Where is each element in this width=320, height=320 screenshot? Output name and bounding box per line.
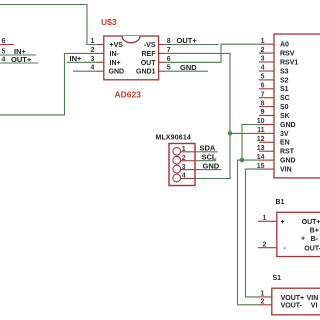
- svg-text:4: 4: [261, 65, 265, 72]
- svg-text:1: 1: [261, 38, 265, 45]
- MLX90614 pin 4: [173, 173, 195, 182]
- svg-text:SCL: SCL: [202, 153, 217, 162]
- svg-text:GND: GND: [109, 69, 125, 76]
- svg-text:B-: B-: [311, 236, 319, 243]
- S1 pin 1: [259, 290, 272, 297]
- svg-text:IN+: IN+: [70, 54, 83, 63]
- IC1 pin 2 RSV: [259, 47, 295, 58]
- svg-text:12: 12: [257, 136, 265, 143]
- svg-text:VIN: VIN: [280, 167, 292, 174]
- svg-text:2: 2: [263, 241, 267, 248]
- svg-text:MLX90614: MLX90614: [156, 135, 191, 142]
- U$3 pin 7 REF: [142, 47, 171, 58]
- B1 pin 2: [258, 241, 287, 252]
- svg-text:OUT-: OUT-: [304, 246, 320, 253]
- IC1 pin 4 S3: [259, 65, 289, 76]
- svg-text:GND: GND: [280, 122, 296, 129]
- svg-text:RSV1: RSV1: [280, 59, 298, 66]
- svg-text:S1: S1: [273, 275, 282, 282]
- svg-text:8: 8: [261, 100, 265, 107]
- U$3 pin 2 IN-: [91, 47, 120, 58]
- svg-text:OUT+: OUT+: [11, 55, 32, 64]
- svg-text:GND: GND: [180, 63, 197, 72]
- net IN+ label wire to U$3 pin3: [67, 54, 98, 63]
- svg-text:4: 4: [2, 57, 6, 64]
- IC1 pin 7 SC: [259, 91, 290, 102]
- wire U$3 pin6 OUT up and over to IC1 pin1 A0: [165, 44, 259, 62]
- wire GND rail down to S1 pin2: [238, 160, 260, 305]
- svg-text:13: 13: [257, 145, 265, 152]
- junction GND rail / IC1 pin14: [240, 158, 245, 163]
- B1 pin 1: [258, 215, 285, 226]
- IC1 pin 11 3V: [257, 127, 289, 138]
- svg-text:SC: SC: [280, 95, 290, 102]
- svg-text:GND1: GND1: [136, 69, 156, 76]
- wire IC1 pin15 VIN down to S1 pin1: [246, 169, 260, 297]
- microcontroller IC1 body (cut off right): [274, 34, 320, 178]
- svg-text:9: 9: [261, 109, 265, 116]
- svg-text:1: 1: [261, 290, 265, 297]
- svg-text:OUT: OUT: [141, 60, 157, 67]
- wire U$3 pin7 REF down (3V rail) to MLX pin4: [165, 53, 230, 178]
- S1 labels VOUT- VIN: [281, 303, 318, 310]
- net OUT+ stub on U$3 pin 8: [165, 36, 218, 45]
- svg-text:GND: GND: [280, 158, 296, 165]
- svg-text:6: 6: [2, 38, 6, 45]
- svg-text:U$3: U$3: [101, 17, 117, 27]
- U$3 pin 3 IN+: [91, 56, 121, 67]
- connector J (left, cut off) pin 6: [0, 38, 14, 45]
- svg-text:AD623: AD623: [115, 90, 142, 100]
- IC1 pin 6 S1: [259, 83, 289, 94]
- IC1 pin 14 GND: [257, 154, 296, 165]
- S1 pin 2: [259, 298, 272, 305]
- svg-text:S2: S2: [280, 77, 289, 84]
- svg-text:SDA: SDA: [200, 144, 216, 153]
- net SCL stub: [195, 153, 217, 162]
- regulator S1 body: [272, 275, 320, 315]
- svg-text:1: 1: [263, 215, 267, 222]
- U$3 pin 1 +VS: [91, 38, 124, 49]
- net GND stub (MLX): [195, 161, 222, 170]
- svg-text:2: 2: [261, 298, 265, 305]
- svg-text:S0: S0: [280, 104, 289, 111]
- svg-text:10: 10: [257, 118, 265, 125]
- U$3 pin 8 -VS: [144, 38, 171, 49]
- IC1 pin 15 VIN: [257, 163, 292, 174]
- wire IC1 pin11 3V: [230, 132, 260, 134]
- svg-text:3V: 3V: [280, 131, 289, 138]
- svg-text:SK: SK: [280, 113, 290, 120]
- op-amp U$3 AD623 body: [101, 17, 159, 99]
- svg-text:14: 14: [257, 154, 265, 161]
- wire IC1 pin14 GND: [242, 159, 260, 161]
- svg-text:B+: B+: [310, 227, 319, 234]
- svg-text:2: 2: [261, 47, 265, 54]
- svg-text:+VS: +VS: [110, 42, 124, 49]
- MLX90614 pin 3 GND: [173, 164, 195, 173]
- svg-text:6: 6: [261, 83, 265, 90]
- svg-text:1: 1: [182, 146, 186, 153]
- IC1 pin 13 RST: [257, 145, 295, 156]
- connector J pin 4 / net OUT+ stub: [0, 55, 38, 64]
- svg-text:B1: B1: [276, 199, 285, 206]
- IC1 pin 8 S0: [259, 100, 289, 111]
- svg-text:VI: VI: [311, 303, 318, 310]
- IC1 pin 12 EN: [257, 136, 290, 147]
- svg-text:4: 4: [182, 173, 186, 180]
- svg-text:7: 7: [261, 91, 265, 98]
- svg-text:4: 4: [91, 65, 95, 72]
- svg-text:5: 5: [261, 74, 265, 81]
- svg-text:2: 2: [91, 47, 95, 54]
- wire top rail to U$3 pin1: [0, 5, 98, 45]
- wire IC1 pin10 GND down to GND junction: [242, 125, 260, 161]
- IC1 pin 9 SK: [259, 109, 290, 120]
- svg-text:15: 15: [257, 163, 265, 170]
- svg-text:VIN: VIN: [307, 295, 319, 302]
- svg-text:3: 3: [182, 164, 186, 171]
- svg-text:IN+: IN+: [110, 60, 121, 67]
- B1 label + B-: [301, 236, 319, 243]
- svg-text:IN-: IN-: [110, 51, 120, 58]
- svg-text:RST: RST: [280, 149, 295, 156]
- svg-text:+: +: [301, 236, 305, 243]
- svg-text:3: 3: [91, 56, 95, 63]
- U$3 pin 6 OUT: [141, 56, 171, 67]
- svg-text:5: 5: [2, 49, 6, 56]
- svg-text:OUT+: OUT+: [177, 36, 198, 45]
- IC1 pin 1 A0: [259, 38, 289, 49]
- net SDA stub: [195, 144, 218, 153]
- MLX90614 pin 2 SCL: [173, 155, 195, 164]
- svg-text:A0: A0: [280, 42, 289, 49]
- net GND stub on U$3 pin 5: [165, 63, 208, 72]
- junction 3V rail / IC1 pin11: [228, 131, 233, 136]
- svg-text:VOUT-: VOUT-: [281, 303, 303, 310]
- svg-text:VOUT+: VOUT+: [281, 295, 305, 302]
- wire to U$3 pin4: [73, 70, 98, 72]
- svg-text:-VS: -VS: [144, 42, 156, 49]
- IC1 pin 10 GND: [257, 118, 296, 129]
- svg-text:EN: EN: [280, 140, 290, 147]
- IC1 pin 5 S2: [259, 74, 289, 85]
- svg-text:GND: GND: [203, 161, 220, 170]
- svg-text:+: +: [281, 219, 285, 226]
- svg-text:S3: S3: [280, 68, 289, 75]
- wire U$3 pin2 IN- to left edge: [0, 53, 98, 115]
- connector J pin 5 / net IN+ stub: [0, 47, 36, 56]
- S1 labels VOUT+ VIN: [281, 295, 319, 302]
- svg-text:S1: S1: [280, 86, 289, 93]
- svg-text:OUT+: OUT+: [302, 219, 320, 226]
- header MLX90614: [156, 135, 196, 186]
- svg-text:3: 3: [261, 56, 265, 63]
- svg-text:2: 2: [182, 155, 186, 162]
- IC1 pin 3 RSV1: [259, 56, 298, 67]
- svg-text:RSV: RSV: [280, 51, 295, 58]
- battery holder B1 body: [276, 199, 320, 257]
- svg-text:11: 11: [257, 127, 265, 134]
- U$3 pin 5 GND1: [136, 65, 171, 76]
- MLX90614 pin 1 SDA: [173, 146, 195, 155]
- U$3 pin 4 GND: [91, 65, 125, 76]
- svg-text:REF: REF: [142, 51, 157, 58]
- svg-text:1: 1: [91, 38, 95, 45]
